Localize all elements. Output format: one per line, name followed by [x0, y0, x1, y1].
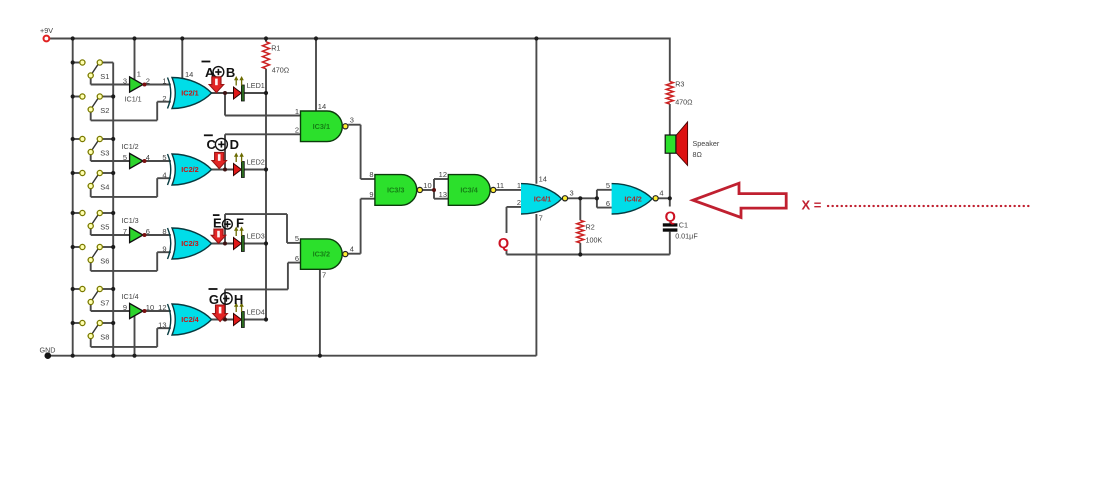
svg-text:R3: R3 — [675, 80, 684, 89]
svg-text:10: 10 — [423, 181, 431, 190]
svg-text:7: 7 — [539, 214, 543, 223]
svg-text:2: 2 — [517, 198, 521, 207]
svg-text:14: 14 — [185, 70, 193, 79]
svg-text:9: 9 — [162, 244, 166, 253]
svg-text:IC3/4: IC3/4 — [460, 186, 478, 195]
svg-text:LED3: LED3 — [247, 231, 265, 240]
svg-text:Speaker: Speaker — [693, 139, 720, 148]
svg-text:1: 1 — [295, 107, 299, 116]
svg-text:B: B — [226, 65, 235, 80]
svg-text:10: 10 — [146, 303, 154, 312]
svg-text:13: 13 — [158, 320, 166, 329]
svg-text:11: 11 — [496, 181, 504, 190]
svg-text:H: H — [234, 292, 243, 307]
svg-text:5: 5 — [606, 181, 610, 190]
svg-text:Q: Q — [665, 209, 676, 225]
svg-text:5: 5 — [123, 153, 127, 162]
svg-text:9: 9 — [369, 190, 373, 199]
svg-text:4: 4 — [350, 245, 354, 254]
svg-text:3: 3 — [570, 189, 574, 198]
svg-text:5: 5 — [295, 234, 299, 243]
svg-text:IC1/1: IC1/1 — [125, 95, 142, 104]
svg-text:3: 3 — [123, 77, 127, 86]
svg-text:2: 2 — [295, 126, 299, 135]
svg-text:IC2/4: IC2/4 — [181, 315, 199, 324]
svg-text:IC2/2: IC2/2 — [181, 165, 198, 174]
svg-text:X =: X = — [802, 198, 822, 213]
svg-text:LED4: LED4 — [247, 307, 265, 316]
svg-text:R1: R1 — [271, 44, 280, 53]
svg-text:1: 1 — [162, 77, 166, 86]
svg-text:E: E — [213, 215, 222, 230]
svg-text:IC4/2: IC4/2 — [624, 194, 641, 203]
svg-text:S5: S5 — [100, 222, 109, 231]
svg-text:F: F — [236, 215, 244, 230]
svg-text:IC3/2: IC3/2 — [313, 250, 330, 259]
svg-text:LED1: LED1 — [247, 81, 265, 90]
svg-text:IC1/2: IC1/2 — [122, 142, 139, 151]
svg-text:D: D — [230, 137, 239, 152]
svg-text:14: 14 — [318, 102, 326, 111]
svg-text:Q: Q — [498, 236, 509, 252]
svg-text:6: 6 — [606, 199, 610, 208]
svg-text:S7: S7 — [100, 298, 109, 307]
svg-text:4: 4 — [146, 153, 150, 162]
svg-text:12: 12 — [439, 170, 447, 179]
svg-text:12: 12 — [158, 303, 166, 312]
svg-text:4: 4 — [162, 170, 166, 179]
svg-text:1: 1 — [517, 181, 521, 190]
svg-text:+9V: +9V — [40, 26, 53, 35]
svg-text:S4: S4 — [100, 182, 109, 191]
svg-text:2: 2 — [162, 94, 166, 103]
svg-text:IC3/1: IC3/1 — [313, 122, 330, 131]
svg-text:IC4/1: IC4/1 — [534, 194, 551, 203]
svg-text:IC2/3: IC2/3 — [181, 239, 198, 248]
svg-text:C1: C1 — [679, 220, 688, 229]
svg-text:R2: R2 — [586, 223, 595, 232]
svg-text:7: 7 — [322, 271, 326, 280]
svg-text:LED2: LED2 — [247, 157, 265, 166]
svg-text:IC1/4: IC1/4 — [122, 292, 139, 301]
svg-text:470Ω: 470Ω — [675, 98, 693, 107]
svg-text:5: 5 — [162, 153, 166, 162]
svg-text:8: 8 — [162, 227, 166, 236]
svg-text:8: 8 — [369, 170, 373, 179]
svg-text:14: 14 — [539, 174, 547, 183]
svg-text:13: 13 — [439, 190, 447, 199]
svg-text:6: 6 — [295, 254, 299, 263]
svg-text:2: 2 — [146, 77, 150, 86]
svg-text:1: 1 — [137, 70, 141, 79]
svg-text:S6: S6 — [100, 256, 109, 265]
svg-text:9: 9 — [123, 303, 127, 312]
svg-text:GND: GND — [40, 346, 56, 355]
svg-text:S2: S2 — [100, 106, 109, 115]
svg-text:IC3/3: IC3/3 — [387, 186, 404, 195]
svg-text:IC1/3: IC1/3 — [122, 216, 139, 225]
svg-text:100K: 100K — [586, 236, 603, 245]
svg-text:7: 7 — [123, 227, 127, 236]
svg-text:4: 4 — [659, 189, 663, 198]
svg-text:470Ω: 470Ω — [272, 66, 290, 75]
svg-text:S1: S1 — [100, 72, 109, 81]
svg-text:S3: S3 — [100, 148, 109, 157]
svg-text:IC2/1: IC2/1 — [181, 89, 198, 98]
svg-text:3: 3 — [350, 116, 354, 125]
svg-text:8Ω: 8Ω — [693, 150, 703, 159]
svg-text:0.01µF: 0.01µF — [675, 232, 698, 241]
svg-text:6: 6 — [146, 227, 150, 236]
svg-text:S8: S8 — [100, 332, 109, 341]
